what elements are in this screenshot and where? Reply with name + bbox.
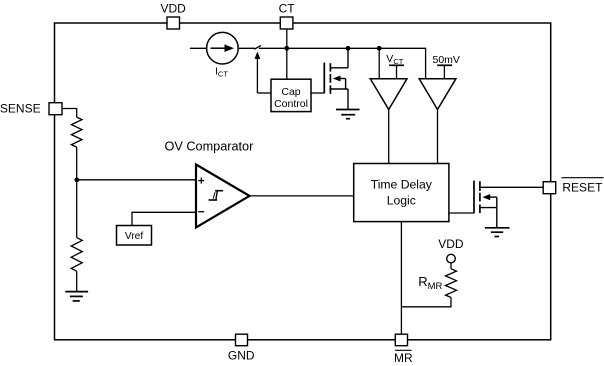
pin GND — [236, 334, 248, 346]
wire: OV comparator output to Time Delay Logic — [250, 195, 354, 197]
wire: switch to CT node — [259, 47, 287, 49]
label RMR — [418, 274, 442, 292]
svg-text:RMR: RMR — [418, 274, 442, 292]
minus input mark — [198, 211, 204, 213]
label MR with overline — [394, 350, 413, 365]
op-amp U1 (CT comparator) — [370, 79, 407, 110]
resistor R1 (upper divider) — [71, 117, 82, 147]
label GND — [228, 348, 255, 362]
wire: CT node to FET drain node — [287, 47, 348, 49]
plus input mark — [198, 178, 204, 184]
svg-text:Control: Control — [274, 98, 308, 110]
resistor RMR — [446, 269, 457, 298]
label Cap Control — [274, 86, 308, 110]
op-amp U3 (OV comparator) — [196, 165, 250, 228]
wire: top rail stub to current source — [190, 47, 207, 49]
reference VCT (T-bar) — [389, 65, 404, 78]
svg-text:VDD: VDD — [438, 237, 464, 251]
svg-text:CT: CT — [279, 2, 296, 16]
wire: SENSE pin to divider top — [62, 109, 77, 118]
wire: divider tap to OV comparator + input — [77, 179, 196, 181]
node: divider tap — [74, 177, 79, 182]
block Cap Control — [271, 79, 311, 111]
wire: Vref to OV comparator - input — [132, 212, 196, 225]
block Vref — [117, 226, 152, 246]
svg-text:Cap: Cap — [281, 86, 300, 98]
svg-text:OV Comparator: OV Comparator — [165, 139, 255, 153]
svg-text:ICT: ICT — [215, 65, 228, 78]
pin VDD — [167, 17, 180, 29]
switch (blade) — [254, 45, 261, 49]
reference 50mV (T-bar) — [437, 65, 452, 78]
switch control arrow from Cap Control — [255, 52, 272, 93]
label ICT — [215, 65, 228, 78]
wire: comparator 2 output to Time Delay Logic — [437, 110, 439, 164]
label 50mV — [433, 54, 460, 66]
label VCT — [386, 53, 403, 66]
current source ICT (circle with arrow) — [207, 32, 239, 64]
transistor Q1 (cap discharge NMOS) — [324, 48, 348, 109]
wire: comparator 1 output to Time Delay Logic — [388, 110, 390, 164]
pin MR — [395, 334, 407, 346]
block Time Delay Logic — [354, 164, 449, 222]
wire: CT pin down to rail and to Cap Control — [286, 29, 288, 79]
svg-text:MR: MR — [394, 351, 413, 365]
label Vref — [125, 231, 143, 242]
wire: divider node down to R2 — [76, 180, 78, 238]
terminal VDD (open circle) — [447, 254, 456, 263]
hysteresis symbol — [209, 191, 224, 200]
wire: drain node to comparator node — [348, 47, 379, 49]
pin CT — [280, 17, 293, 29]
wire: VDD terminal to RMR — [450, 263, 452, 269]
resistor R2 (lower divider) — [71, 238, 82, 272]
label RESET with overline — [561, 178, 603, 195]
node: discharge FET drain junction — [346, 46, 351, 51]
ground (divider) — [65, 292, 88, 301]
label SENSE — [0, 101, 41, 115]
label Time Delay Logic — [371, 177, 433, 207]
svg-text:RESET: RESET — [562, 181, 603, 195]
pin RESET — [543, 182, 556, 194]
svg-text:VCT: VCT — [386, 53, 403, 66]
svg-text:VDD: VDD — [161, 2, 187, 16]
node: comparator 1 input junction — [377, 46, 382, 51]
wire: RMR to MR line — [401, 298, 451, 307]
transistor Q2 (reset NMOS) — [474, 181, 543, 228]
node: CT rail junction — [284, 46, 289, 51]
ground (reset FET source) — [485, 228, 510, 237]
svg-text:50mV: 50mV — [433, 54, 460, 66]
svg-text:Time Delay: Time Delay — [371, 177, 433, 191]
IC boundary box — [55, 23, 551, 340]
label VDD (RMR pull-up) — [438, 237, 464, 251]
svg-text:SENSE: SENSE — [0, 101, 41, 115]
wire: current source to switch — [238, 47, 255, 49]
label VDD — [161, 2, 187, 16]
ground (discharge FET source) — [336, 110, 360, 119]
svg-text:Logic: Logic — [387, 194, 416, 208]
label CT — [279, 2, 296, 16]
wire: comparator 1 left input — [378, 48, 380, 78]
wire: R1 to divider node — [76, 147, 78, 180]
label OV Comparator — [165, 139, 255, 153]
svg-text:Vref: Vref — [125, 231, 143, 242]
op-amp U2 (50mV comparator) — [419, 79, 456, 110]
wire: Cap Control to discharge FET gate — [311, 92, 324, 94]
wire: R2 to ground — [76, 271, 78, 291]
wire: Time Delay Logic to reset FET gate — [449, 212, 474, 214]
svg-text:GND: GND — [228, 348, 255, 362]
wire: rail to comparator 2 input (corner bend) — [379, 48, 425, 78]
pin SENSE — [49, 103, 62, 115]
wire: Time Delay Logic to MR pin — [400, 222, 402, 335]
